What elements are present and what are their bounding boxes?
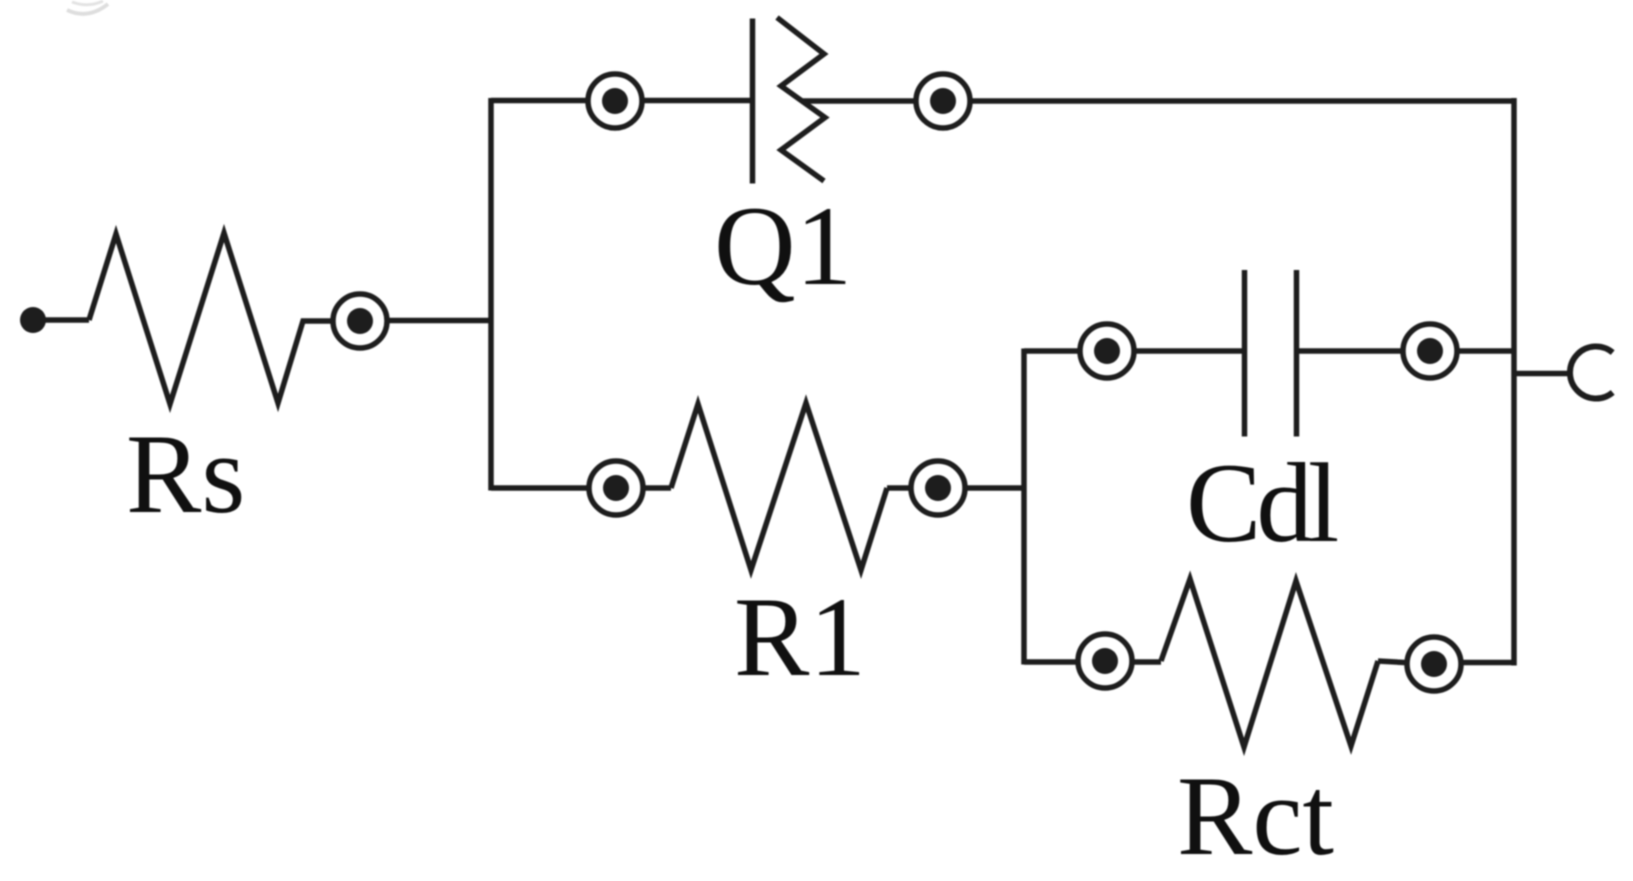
node terminal Cdl left bbox=[1080, 324, 1134, 378]
capacitor Cdl left plate bbox=[1242, 270, 1248, 437]
dot of terminal Cdl right bbox=[1417, 338, 1443, 364]
left terminal dot bbox=[20, 307, 46, 333]
CPE Q1 zigzag bbox=[777, 18, 825, 182]
node terminal after Rs bbox=[333, 294, 387, 348]
node terminal Cdl right bbox=[1403, 324, 1457, 378]
wire: Rct to right rail bbox=[1378, 661, 1514, 663]
node terminal Rct right bbox=[1407, 637, 1461, 691]
dot of terminal Rct left bbox=[1092, 648, 1118, 674]
svg-text:Rct: Rct bbox=[1177, 754, 1334, 879]
dot of terminal Q1 right bbox=[930, 88, 956, 114]
CPE Q1 vertical bar bbox=[750, 19, 756, 184]
right rail bbox=[1511, 98, 1517, 666]
svg-text:Rs: Rs bbox=[126, 412, 245, 537]
node terminal Rct left bbox=[1078, 634, 1132, 688]
wire: left terminal to Rs bbox=[40, 317, 89, 323]
svg-text:Q1: Q1 bbox=[714, 184, 852, 309]
node terminal Q1 left bbox=[588, 74, 642, 128]
resistor Rs bbox=[89, 233, 334, 404]
node terminal Q1 right bbox=[916, 74, 970, 128]
node terminal R1 left bbox=[589, 461, 643, 515]
dot of terminal Cdl left bbox=[1094, 338, 1120, 364]
dot of terminal Rct right bbox=[1421, 651, 1447, 677]
node terminal R1 right bbox=[911, 461, 965, 515]
wire: Rs to node A bbox=[360, 318, 491, 324]
dot of terminal Q1 left bbox=[602, 88, 628, 114]
capacitor Cdl right plate bbox=[1294, 270, 1300, 437]
node B: RC network left rail bbox=[1021, 349, 1027, 665]
wire: right rail to open terminal bbox=[1514, 371, 1572, 377]
resistor Rct bbox=[1161, 579, 1378, 747]
wire: top branch left bbox=[491, 98, 752, 104]
wire: R1 to left rail of RC network bbox=[887, 485, 1024, 491]
wire: Rct branch left bbox=[1024, 659, 1161, 665]
faint cropped mark top-left bbox=[67, 4, 108, 14]
dot of terminal after Rs bbox=[347, 308, 373, 334]
dot of terminal R1 left bbox=[603, 475, 629, 501]
wire: bottom branch left bbox=[491, 485, 671, 491]
node A: left junction vertical bbox=[488, 98, 494, 491]
wire: top branch right bbox=[802, 98, 1514, 104]
open terminal C bbox=[1570, 347, 1613, 399]
resistor R1 bbox=[671, 403, 887, 570]
wire: Cdl branch left bbox=[1024, 348, 1242, 354]
svg-text:R1: R1 bbox=[734, 575, 866, 700]
svg-text:Cdl: Cdl bbox=[1186, 441, 1338, 566]
dot of terminal R1 right bbox=[925, 475, 951, 501]
wire: Cdl branch right bbox=[1299, 348, 1514, 354]
